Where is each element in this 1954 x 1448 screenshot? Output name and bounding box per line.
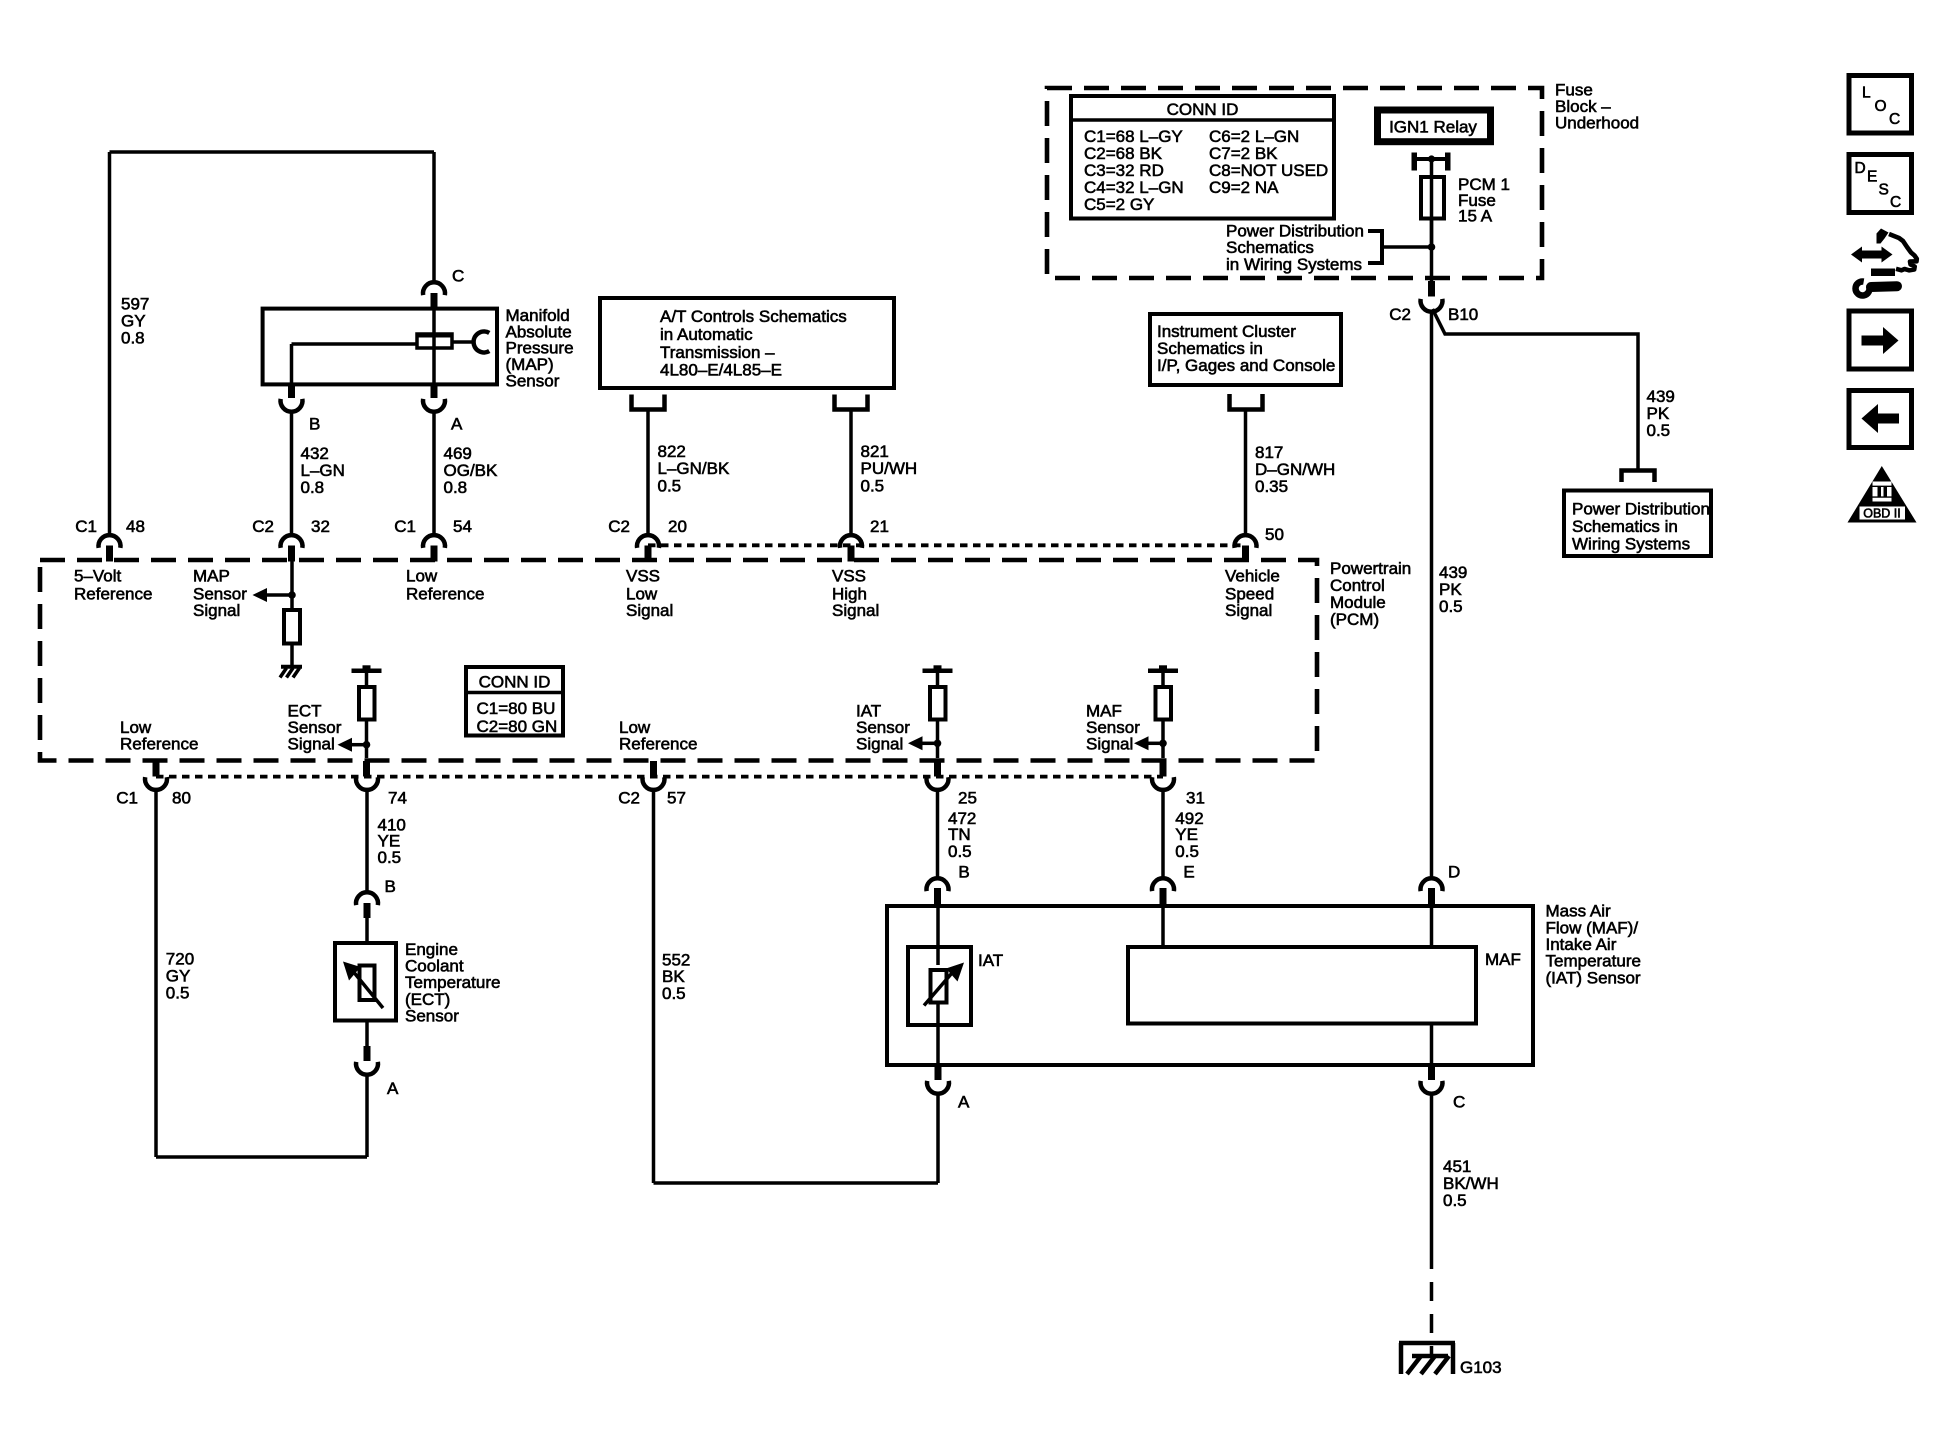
svg-text:O: O xyxy=(1875,98,1887,115)
connector A below IAT xyxy=(935,1065,942,1080)
connector C2 20 xyxy=(637,535,659,548)
svg-text:0.5: 0.5 xyxy=(662,984,686,1003)
MAP internal transducer element xyxy=(417,334,452,348)
Instrument Cluster box xyxy=(1150,314,1341,385)
IAT pullup resistor xyxy=(930,687,946,720)
svg-text:57: 57 xyxy=(667,789,686,808)
connector 50 xyxy=(1235,535,1257,548)
PCM dashed box xyxy=(40,560,1317,761)
svg-text:31: 31 xyxy=(1186,789,1205,808)
connector C2 32 xyxy=(280,535,302,548)
connector B at IAT xyxy=(927,878,949,891)
wire to MAP pin C xyxy=(432,152,436,281)
svg-text:Reference: Reference xyxy=(619,735,697,754)
icon LOC box xyxy=(1849,76,1912,134)
svg-text:0.5: 0.5 xyxy=(166,984,190,1003)
wire D pin inside sensor xyxy=(1430,906,1434,947)
svg-text:A: A xyxy=(451,415,463,434)
MAF pullup supply tee xyxy=(1159,665,1167,668)
IAT thermistor arrow xyxy=(924,970,955,1006)
svg-text:(IAT) Sensor: (IAT) Sensor xyxy=(1546,968,1641,987)
wire 492 from pin 31 xyxy=(1161,789,1165,879)
connector C1 48 xyxy=(99,535,121,548)
svg-text:C: C xyxy=(1453,1093,1465,1112)
svg-text:C2=80 GN: C2=80 GN xyxy=(477,717,558,736)
svg-text:B: B xyxy=(958,863,969,882)
ECT thermistor arrow xyxy=(352,970,383,1008)
svg-text:C9=2 NA: C9=2 NA xyxy=(1209,178,1279,197)
wire IAT element to box bottom xyxy=(936,1002,940,1065)
Fuse Block - Underhood dashed box xyxy=(1047,88,1542,278)
wire resistor to MAF junction xyxy=(1161,720,1165,759)
MAP internal wire vertical C to A xyxy=(432,307,436,384)
svg-text:C1: C1 xyxy=(394,517,416,536)
MAP sensor box xyxy=(263,309,497,385)
wire 432 xyxy=(290,411,294,535)
svg-text:IAT: IAT xyxy=(978,951,1003,970)
wire junction to MAP pulldown resistor xyxy=(290,561,294,610)
net dotted line lower row xyxy=(156,775,1163,779)
svg-text:VSS: VSS xyxy=(832,567,866,586)
wire resistor to IAT junction xyxy=(936,720,940,759)
svg-text:Signal: Signal xyxy=(832,601,879,620)
wire 817 xyxy=(1244,410,1248,535)
connector D at MAF xyxy=(1421,878,1443,891)
wire MAF element to box bottom xyxy=(1430,1024,1434,1066)
svg-text:32: 32 xyxy=(311,517,330,536)
wire tee to ECT pullup resistor xyxy=(365,672,369,687)
svg-text:A/T Controls Schematics: A/T Controls Schematics xyxy=(660,307,847,326)
svg-text:0.8: 0.8 xyxy=(301,478,325,497)
wire 451 from MAF C xyxy=(1430,1093,1434,1250)
IGN1 Relay box xyxy=(1374,107,1494,146)
svg-text:I/P, Gages and Console: I/P, Gages and Console xyxy=(1157,356,1335,375)
connector C at MAP sensor xyxy=(423,282,445,295)
MAF signal junction xyxy=(1159,740,1167,748)
svg-text:C2: C2 xyxy=(608,517,630,536)
A/T Controls box xyxy=(600,298,894,388)
MAP pulldown resistor xyxy=(284,610,300,644)
svg-text:C1: C1 xyxy=(75,517,97,536)
svg-text:Underhood: Underhood xyxy=(1555,114,1639,133)
svg-text:D: D xyxy=(1448,863,1460,882)
svg-text:Sensor: Sensor xyxy=(506,372,560,391)
wire fuse to connector C2 B10 xyxy=(1430,218,1434,281)
svg-text:A: A xyxy=(387,1079,399,1098)
svg-text:74: 74 xyxy=(388,789,407,808)
svg-text:Reference: Reference xyxy=(120,735,198,754)
wire 552 bottom horizontal to IAT A xyxy=(654,1181,939,1185)
svg-text:C: C xyxy=(1890,194,1901,211)
svg-text:A: A xyxy=(958,1093,970,1112)
svg-text:0.5: 0.5 xyxy=(1439,597,1463,616)
ground G103 xyxy=(1399,1341,1455,1346)
icon back arrow box xyxy=(1849,391,1912,448)
svg-text:Wiring Systems: Wiring Systems xyxy=(1572,535,1690,554)
svg-text:Power Distribution: Power Distribution xyxy=(1572,500,1710,519)
ECT signal junction xyxy=(363,741,371,749)
svg-text:0.5: 0.5 xyxy=(948,842,972,861)
IAT signal junction xyxy=(934,740,942,748)
svg-text:Signal: Signal xyxy=(626,601,673,620)
svg-text:(PCM): (PCM) xyxy=(1330,610,1379,629)
wire 451 dashed section xyxy=(1430,1250,1434,1356)
ECT thermistor element xyxy=(360,966,375,1001)
svg-text:25: 25 xyxy=(958,789,977,808)
wire ECT A down xyxy=(365,1074,369,1157)
wire 552 from pin 57 xyxy=(652,789,656,1183)
svg-text:Signal: Signal xyxy=(288,735,335,754)
svg-text:0.5: 0.5 xyxy=(1443,1191,1467,1210)
svg-text:Signal: Signal xyxy=(1225,601,1272,620)
icon forward arrow box xyxy=(1849,311,1912,369)
off-page bracket under A/T right xyxy=(835,395,868,410)
svg-text:CONN ID: CONN ID xyxy=(479,673,551,692)
svg-text:OBD II: OBD II xyxy=(1863,507,1901,521)
svg-text:54: 54 xyxy=(453,517,472,536)
MAP signal junction xyxy=(288,591,296,599)
ECT sensor box xyxy=(335,943,396,1021)
relay output terminal bracket xyxy=(1412,153,1418,171)
net dotted line VSS row xyxy=(648,543,1246,547)
icon OBD II triangle xyxy=(1848,466,1917,523)
wire 410 from pin 74 xyxy=(365,789,369,893)
svg-text:Signal: Signal xyxy=(1086,735,1133,754)
MAF pullup resistor xyxy=(1156,687,1172,720)
connector C2 B10 xyxy=(1428,281,1435,297)
svg-text:0.5: 0.5 xyxy=(1175,842,1199,861)
svg-text:S: S xyxy=(1879,181,1889,198)
wire 472 from pin 25 xyxy=(936,789,940,879)
IAT pullup supply tee xyxy=(934,665,942,668)
MAF IAT sensor outer box xyxy=(887,906,1533,1065)
off-page bracket under Instrument Cluster xyxy=(1230,394,1263,410)
connector C2 57 xyxy=(650,761,657,777)
wire ECT to connector A xyxy=(365,1021,369,1049)
svg-text:15 A: 15 A xyxy=(1458,207,1493,226)
wire 720 bottom horizontal to ECT A xyxy=(156,1155,367,1159)
svg-text:PU/WH: PU/WH xyxy=(861,459,918,478)
CONN ID small box (PCM) xyxy=(466,667,563,736)
wire tee to MAF pullup resistor xyxy=(1161,672,1165,687)
ECT pullup resistor xyxy=(359,687,375,720)
svg-text:CONN ID: CONN ID xyxy=(1167,100,1239,119)
connector A below ECT xyxy=(364,1046,371,1061)
svg-text:L–GN/BK: L–GN/BK xyxy=(658,459,730,478)
ECT pullup supply tee xyxy=(363,665,371,668)
svg-text:4L80–E/4L85–E: 4L80–E/4L85–E xyxy=(660,361,782,380)
wire 469 xyxy=(432,411,436,535)
ECT signal arrow xyxy=(338,738,353,752)
icon DESC box xyxy=(1849,155,1912,213)
Power Distribution Schematics box xyxy=(1564,491,1711,557)
wire resistor to ECT junction xyxy=(365,720,369,759)
svg-text:Signal: Signal xyxy=(856,735,903,754)
svg-text:20: 20 xyxy=(668,517,687,536)
IAT thermistor element xyxy=(931,970,947,1003)
MAP internal wire horizontal to B xyxy=(292,342,418,346)
wire 822 xyxy=(646,410,650,535)
wire B pin inside sensor xyxy=(936,906,940,965)
fuse PCM 1 15A xyxy=(1421,177,1444,219)
svg-text:in Automatic: in Automatic xyxy=(660,325,753,344)
svg-text:80: 80 xyxy=(172,789,191,808)
svg-text:in Wiring Systems: in Wiring Systems xyxy=(1226,255,1362,274)
connector C below MAF xyxy=(1428,1065,1435,1080)
svg-text:Schematics in: Schematics in xyxy=(1572,517,1678,536)
MAP internal pressure port crescent xyxy=(474,332,490,353)
svg-text:C2: C2 xyxy=(1389,305,1411,324)
svg-text:B: B xyxy=(309,415,320,434)
wire relay to fuse xyxy=(1430,159,1434,247)
svg-text:C: C xyxy=(452,267,464,286)
svg-text:E: E xyxy=(1183,863,1194,882)
svg-text:0.5: 0.5 xyxy=(658,476,682,495)
junction node below fuse xyxy=(1428,243,1436,251)
svg-text:Transmission –: Transmission – xyxy=(660,343,775,362)
MAP signal arrow xyxy=(253,588,268,602)
wire E pin inside sensor xyxy=(1161,906,1165,947)
svg-text:0.5: 0.5 xyxy=(1647,421,1671,440)
CONN ID table (fuse block) xyxy=(1071,96,1334,219)
connector B below MAP xyxy=(288,384,295,398)
svg-text:5–Volt: 5–Volt xyxy=(74,567,122,586)
svg-text:0.35: 0.35 xyxy=(1255,477,1288,496)
svg-text:50: 50 xyxy=(1265,525,1284,544)
connector 25 xyxy=(934,761,941,777)
icon vehicle with arrows and wrench xyxy=(1877,229,1889,244)
svg-text:E: E xyxy=(1867,169,1877,186)
wire resistor to signal ground xyxy=(290,644,294,667)
svg-text:G103: G103 xyxy=(1460,1358,1502,1377)
svg-text:Vehicle: Vehicle xyxy=(1225,567,1280,586)
svg-text:IGN1 Relay: IGN1 Relay xyxy=(1389,118,1477,137)
svg-text:L: L xyxy=(1862,85,1871,102)
svg-text:0.5: 0.5 xyxy=(861,476,885,495)
svg-text:Signal: Signal xyxy=(193,601,240,620)
svg-text:MAP: MAP xyxy=(193,567,230,586)
connector 21 xyxy=(840,535,862,548)
connector C1 54 xyxy=(423,535,445,548)
wire branch diagonal from B10 xyxy=(1433,309,1639,471)
wire tee to IAT pullup resistor xyxy=(936,672,940,687)
MAF element box xyxy=(1128,947,1476,1024)
IAT signal arrow xyxy=(908,736,923,750)
svg-text:Sensor: Sensor xyxy=(405,1007,459,1026)
connector A below MAP xyxy=(431,384,438,398)
svg-text:VSS: VSS xyxy=(626,567,660,586)
wire 597 top horizontal xyxy=(110,150,435,154)
MAF signal arrow xyxy=(1134,736,1149,750)
svg-text:C: C xyxy=(1889,111,1900,128)
connector B at ECT xyxy=(356,892,378,905)
svg-text:C2: C2 xyxy=(618,789,640,808)
connector E at MAF xyxy=(1152,878,1174,891)
svg-text:C1: C1 xyxy=(116,789,138,808)
connector 74 xyxy=(363,761,370,777)
off-page bracket above Power Distribution box xyxy=(1622,471,1655,483)
svg-text:D: D xyxy=(1855,160,1866,177)
off-page bracket under A/T left xyxy=(632,395,665,410)
svg-text:0.5: 0.5 xyxy=(378,848,402,867)
svg-text:C1=80 BU: C1=80 BU xyxy=(477,699,556,718)
wire 821 xyxy=(849,410,853,535)
svg-text:Reference: Reference xyxy=(74,584,152,603)
wire 597 left vertical to pin 48 xyxy=(108,152,112,535)
wire 720 from pin 80 xyxy=(154,789,158,1157)
MAP internal wire vertical B xyxy=(290,344,294,384)
svg-text:0.8: 0.8 xyxy=(444,478,468,497)
signal ground (MAP) xyxy=(281,665,302,669)
svg-text:0.8: 0.8 xyxy=(121,328,145,347)
svg-text:Low: Low xyxy=(406,567,438,586)
svg-text:B10: B10 xyxy=(1448,305,1478,324)
wire note bracket to junction xyxy=(1382,245,1432,249)
wire B to ECT sensor xyxy=(365,917,369,943)
svg-text:C2: C2 xyxy=(252,517,274,536)
svg-text:MAF: MAF xyxy=(1485,950,1521,969)
wire B10 main vertical xyxy=(1430,311,1434,879)
svg-text:B: B xyxy=(385,877,396,896)
connector C1 80 xyxy=(153,761,160,777)
svg-text:48: 48 xyxy=(126,517,145,536)
svg-text:21: 21 xyxy=(870,517,889,536)
wire IAT A down xyxy=(936,1093,940,1183)
connector 31 xyxy=(1160,761,1167,777)
IAT element box xyxy=(908,947,971,1025)
svg-text:C5=2 GY: C5=2 GY xyxy=(1084,195,1154,214)
note bracket xyxy=(1368,231,1382,263)
svg-text:Reference: Reference xyxy=(406,584,484,603)
